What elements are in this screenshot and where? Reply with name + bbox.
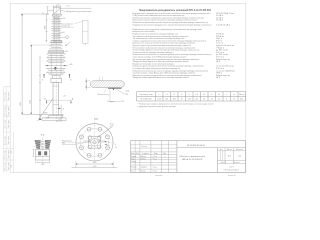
svg-text:n1: n1 bbox=[233, 94, 235, 96]
svg-text:№ докум.: № докум. bbox=[142, 152, 149, 155]
svg-text:Лист: Лист bbox=[221, 162, 225, 164]
svg-text:8: 8 bbox=[226, 99, 227, 101]
svg-text:48кг: 48кг bbox=[240, 99, 244, 101]
svg-text:Инв. № подл.: Инв. № подл. bbox=[5, 106, 7, 116]
svg-text:А-А: А-А bbox=[94, 117, 98, 120]
svg-text:Заводской номер изделий компле: Заводской номер изделий комплектных изол… bbox=[133, 76, 190, 79]
svg-text:«Электроаппарат»: «Электроаппарат» bbox=[224, 169, 240, 171]
svg-text:ООО: ООО bbox=[229, 166, 234, 168]
svg-text:16: 16 bbox=[233, 99, 235, 101]
svg-text:Листов 1: Листов 1 bbox=[233, 162, 240, 164]
svg-text:1830: 1830 bbox=[45, 26, 47, 30]
svg-text:Формат А2: Формат А2 bbox=[228, 174, 236, 177]
svg-text:850: 850 bbox=[173, 99, 176, 101]
svg-text:Переизд.: Переизд. bbox=[141, 146, 148, 148]
svg-text:Предохранитель-разъединитель у: Предохранитель-разъединитель усиленный П… bbox=[139, 9, 212, 12]
svg-text:2902: 2902 bbox=[20, 102, 22, 106]
svg-text:D2: D2 bbox=[203, 94, 205, 96]
svg-text:ХЛ1: ХЛ1 bbox=[126, 91, 129, 93]
svg-text:Подп. и дата: Подп. и дата bbox=[8, 92, 10, 101]
svg-text:Инв. № подл.: Инв. № подл. bbox=[5, 119, 7, 129]
svg-text:Опора: Опора bbox=[107, 101, 114, 103]
svg-text:⌀225: ⌀225 bbox=[93, 161, 97, 164]
svg-text:Подп. и дата: Подп. и дата bbox=[8, 120, 10, 129]
svg-text:Инв. № подл.: Инв. № подл. bbox=[5, 161, 7, 171]
svg-text:2: 2 bbox=[132, 146, 133, 148]
svg-text:18: 18 bbox=[218, 99, 220, 101]
svg-text:Дата: Дата bbox=[163, 153, 167, 155]
svg-text:кВ и: кВ и bbox=[216, 61, 220, 63]
svg-text:46,3: 46,3 bbox=[227, 156, 231, 158]
svg-text:Подп.: Подп. bbox=[154, 153, 159, 155]
svg-text:L2: L2 bbox=[173, 94, 175, 96]
svg-text:76 кА и: 76 кА и bbox=[216, 19, 223, 22]
svg-text:250: 250 bbox=[125, 94, 128, 96]
svg-text:Подп. и дата: Подп. и дата bbox=[8, 107, 10, 116]
svg-text:Предохранение системы при удар: Предохранение системы при ударе сист. ма… bbox=[133, 23, 212, 26]
svg-text:КР 110ХЛ-150: КР 110ХЛ-150 bbox=[141, 99, 152, 101]
svg-text:1:10: 1:10 bbox=[238, 156, 242, 158]
svg-text:Б: Б bbox=[116, 147, 118, 149]
svg-text:Тип изоляц. опор: Тип изоляц. опор bbox=[139, 94, 152, 96]
svg-text:КР 110ХЛ.01.00.00: КР 110ХЛ.01.00.00 bbox=[187, 145, 206, 147]
svg-text:с другим количеством рёбер опо: с другим количеством рёбер опоры. bbox=[138, 106, 178, 108]
svg-text:2,5 кВ 50 кА и: 2,5 кВ 50 кА и bbox=[216, 23, 230, 26]
svg-text:110: 110 bbox=[165, 99, 168, 101]
svg-text:1250: 1250 bbox=[157, 99, 161, 101]
svg-text:Копировал: Копировал bbox=[155, 175, 163, 177]
svg-text:Лист: Лист bbox=[136, 153, 140, 155]
svg-text:ХЛ1: ХЛ1 bbox=[11, 164, 13, 167]
svg-text:⌀150: ⌀150 bbox=[61, 17, 65, 20]
svg-text:30: 30 bbox=[181, 99, 183, 101]
svg-text:Масса: Масса bbox=[227, 149, 232, 151]
svg-text:Утв.: Утв. bbox=[131, 170, 135, 172]
svg-text:(Жесткость формованная): (Жесткость формованная) bbox=[179, 155, 205, 158]
svg-text:d: d bbox=[211, 94, 212, 96]
svg-text:Инв. № подл.: Инв. № подл. bbox=[5, 91, 7, 101]
svg-text:Иванов: Иванов bbox=[141, 156, 146, 158]
svg-text:А: А bbox=[72, 97, 74, 100]
svg-text:Подп. и дата: Подп. и дата bbox=[8, 150, 10, 159]
svg-text:2 отв.: 2 отв. bbox=[66, 6, 71, 8]
svg-text:D1: D1 bbox=[196, 94, 198, 96]
svg-text:D: D bbox=[189, 94, 191, 96]
svg-text:22: 22 bbox=[211, 99, 213, 101]
svg-text:b: b bbox=[181, 94, 182, 96]
svg-text:1250: 1250 bbox=[29, 100, 31, 104]
svg-text:⌀27: ⌀27 bbox=[63, 94, 66, 97]
svg-text:Масштаб: Масштаб bbox=[236, 149, 243, 151]
svg-text:1: 1 bbox=[67, 37, 68, 39]
svg-text:НКР-А 10-76-150/ХЛ1: НКР-А 10-76-150/ХЛ1 bbox=[182, 158, 204, 161]
svg-text:⌀18: ⌀18 bbox=[110, 125, 113, 128]
svg-text:Петров: Петров bbox=[141, 158, 146, 160]
svg-text:Т.контр.: Т.контр. bbox=[131, 161, 137, 163]
svg-text:d1: d1 bbox=[218, 94, 220, 96]
svg-text:Масса: Масса bbox=[239, 94, 244, 96]
svg-text:Н.контр.: Н.контр. bbox=[131, 167, 138, 169]
svg-text:Б: Б bbox=[42, 79, 44, 81]
svg-text:L1: L1 bbox=[166, 94, 168, 96]
svg-text:250: 250 bbox=[195, 99, 198, 101]
svg-text:75: 75 bbox=[62, 108, 64, 110]
svg-text:ХЛ1: ХЛ1 bbox=[11, 150, 13, 153]
svg-text:А: А bbox=[44, 97, 46, 100]
svg-text:Подп. и дата: Подп. и дата bbox=[8, 162, 10, 171]
svg-text:18: 18 bbox=[203, 99, 205, 101]
svg-text:Пров.: Пров. bbox=[131, 158, 136, 160]
svg-text:L: L bbox=[159, 94, 160, 96]
svg-text:Козлов: Козлов bbox=[141, 170, 146, 172]
svg-text:Проушина для монтажа: Проушина для монтажа bbox=[66, 11, 93, 13]
svg-text:225: 225 bbox=[188, 99, 191, 101]
svg-text:Б-Б: Б-Б bbox=[41, 135, 45, 137]
svg-text:ХЛ1: ХЛ1 bbox=[121, 101, 124, 103]
svg-text:Сидоров: Сидоров bbox=[141, 167, 147, 169]
svg-text:⌀250: ⌀250 bbox=[93, 165, 97, 168]
svg-text:И250: И250 bbox=[43, 113, 47, 115]
svg-text:Подп. и дата: Подп. и дата bbox=[8, 136, 10, 145]
svg-text:Б: Б bbox=[70, 79, 72, 81]
svg-text:⌀10: ⌀10 bbox=[61, 31, 64, 34]
svg-text:⌀420: ⌀420 bbox=[64, 50, 68, 53]
svg-text:Разраб.: Разраб. bbox=[131, 156, 137, 158]
svg-text:n: n bbox=[226, 94, 227, 96]
svg-text:⌀225: ⌀225 bbox=[45, 116, 49, 119]
svg-text:Инв. № подл.: Инв. № подл. bbox=[5, 149, 7, 159]
svg-text:⌀75: ⌀75 bbox=[56, 3, 59, 6]
svg-text:⌀420: ⌀420 bbox=[69, 63, 73, 66]
svg-text:Изм: Изм bbox=[131, 153, 134, 155]
svg-text:Инв. № подл.: Инв. № подл. bbox=[5, 135, 7, 145]
svg-text:Металлоконстр.: Металлоконстр. bbox=[98, 94, 110, 96]
svg-text:кВ и: кВ и bbox=[216, 77, 220, 79]
